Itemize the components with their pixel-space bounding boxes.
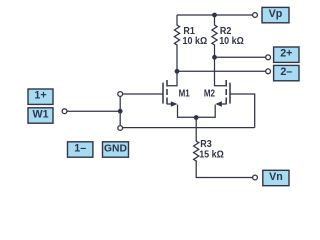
label R3 value <box>199 138 224 160</box>
svg-text:M1: M1 <box>179 88 190 99</box>
transistor M2 <box>204 80 230 107</box>
box Vn <box>263 170 289 185</box>
svg-text:10 kΩ: 10 kΩ <box>183 35 208 47</box>
svg-text:15 kΩ: 15 kΩ <box>199 149 224 161</box>
junction source node <box>194 115 199 120</box>
svg-text:1+: 1+ <box>34 90 46 102</box>
box 2+ <box>274 47 299 62</box>
wire R1 bottom to M1 drain <box>167 50 177 86</box>
junction top rail R2 <box>212 13 217 18</box>
terminal input W1 <box>62 109 67 114</box>
svg-text:GND: GND <box>104 144 127 155</box>
terminal 2- <box>266 69 271 74</box>
label R1 value <box>183 26 208 47</box>
wire M1 gate <box>123 93 163 95</box>
wire 2+ output <box>215 56 266 58</box>
svg-text:Vp: Vp <box>269 8 283 20</box>
wire bottom gate return <box>123 127 255 129</box>
svg-text:1–: 1– <box>74 143 86 155</box>
label R2 value <box>219 26 244 47</box>
wire M2 gate return <box>230 94 255 128</box>
box Vp <box>262 7 289 22</box>
wire R2 bottom to M2 drain <box>215 50 227 86</box>
svg-text:M2: M2 <box>204 88 215 99</box>
transistor M1 <box>163 80 190 107</box>
svg-text:W1: W1 <box>32 109 48 121</box>
svg-text:10 kΩ: 10 kΩ <box>219 35 244 47</box>
box 1+ <box>28 89 53 104</box>
junction input node <box>118 109 123 114</box>
svg-text:2–: 2– <box>280 66 292 78</box>
wire R3 to Vn <box>196 161 252 178</box>
wire common source bus <box>178 105 216 118</box>
junction 2- node <box>175 69 180 74</box>
svg-text:2+: 2+ <box>280 48 292 60</box>
terminal Vp <box>253 13 258 18</box>
terminal 2+ <box>266 55 271 60</box>
svg-text:Vn: Vn <box>269 171 283 183</box>
resistor R3 <box>194 118 199 162</box>
wire 2- output <box>177 70 266 72</box>
box GND <box>103 142 129 157</box>
resistor R1 <box>174 15 179 50</box>
box W1 <box>28 108 53 123</box>
box 2- <box>274 65 299 80</box>
resistor R2 <box>212 15 217 50</box>
terminal gate M1 node <box>118 92 123 97</box>
box 1- <box>68 142 93 157</box>
junction 2+ node <box>212 55 217 60</box>
wire left node vertical <box>119 96 121 125</box>
wire top supply rail <box>177 14 253 16</box>
wire input to node <box>67 110 120 112</box>
terminal gate M2 node <box>118 126 123 131</box>
terminal Vn <box>253 175 258 180</box>
